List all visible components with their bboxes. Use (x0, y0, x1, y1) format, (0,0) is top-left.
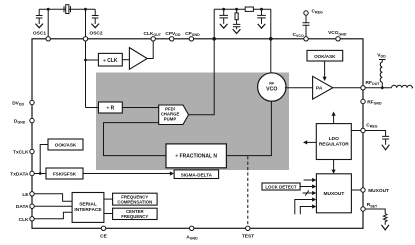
svg-text:LE: LE (22, 192, 29, 198)
svg-text:SERIAL: SERIAL (79, 202, 97, 208)
ground (CREG cap) (382, 145, 390, 150)
gray PLL region (96, 73, 289, 171)
wire: muxout block to pin (351, 189, 360, 191)
pin CLKOUT (151, 37, 155, 41)
pin CREG (top, regulator bypass) (304, 11, 308, 15)
wire: LDO left arrow (307, 141, 317, 143)
wire: LDO up arrow (333, 115, 335, 124)
wire: crystal top rail (39, 8, 95, 10)
capacitor C1 (loop filter) (219, 9, 228, 24)
svg-text:VCOGND: VCOGND (328, 30, 347, 36)
wire: loop filter top (214, 8, 271, 10)
svg-text:FREQUENCY: FREQUENCY (121, 214, 148, 219)
svg-text:CPGND: CPGND (185, 31, 200, 37)
wire: VCO to PA (285, 87, 313, 89)
svg-text:LDO: LDO (329, 136, 339, 142)
svg-text:OSC1: OSC1 (33, 31, 46, 37)
pin LE (30, 192, 34, 196)
block CENTER FREQUENCY (113, 208, 158, 219)
svg-text:CLKOUT: CLKOUT (144, 31, 162, 37)
pin CPGND (189, 37, 193, 41)
wire: RSET to resistor (365, 209, 385, 214)
svg-text:RSET: RSET (367, 202, 378, 208)
wire: LDO to CREG pin (351, 130, 361, 132)
wire: OSC2 down to dividers (85, 41, 87, 108)
node: CP rail junction (212, 37, 216, 41)
node: TxDATA junction (39, 172, 42, 175)
svg-text:TxCLK: TxCLK (13, 150, 29, 156)
svg-text:COMPENSATION: COMPENSATION (117, 199, 152, 204)
svg-text:OOK/ASK: OOK/ASK (314, 54, 336, 59)
wire: OSC1 drop (47, 9, 49, 36)
svg-text:CE: CE (100, 234, 107, 240)
capacitor C-reg-top (303, 15, 310, 36)
modulator FSK/GFSK (46, 168, 83, 179)
svg-text:SIGMA-DELTA: SIGMA-DELTA (181, 172, 213, 177)
chip outline (32, 39, 363, 229)
modulator OOK/ASK (left) (48, 139, 83, 150)
wire: lock detect to muxout (arrow) (300, 186, 313, 188)
svg-text:VDD: VDD (377, 52, 386, 58)
pin MUXOUT (361, 188, 365, 192)
node: choke tap (381, 86, 384, 89)
inductor L-ant (series squiggle) (392, 85, 414, 88)
svg-text:CPVDD: CPVDD (165, 31, 180, 37)
pin TEST (246, 226, 250, 230)
wire: PA to RFOUT (333, 87, 361, 89)
wire: CREG to bypass cap (365, 131, 385, 137)
svg-text:RFGND: RFGND (367, 100, 382, 106)
wire: ÷R to PFD (122, 107, 158, 109)
ground (osc1 cap) (35, 24, 43, 28)
wire: DATA to serial interface (34, 205, 72, 207)
pin DVDD (30, 100, 34, 104)
block MUXOUT (316, 174, 351, 213)
wire: LE to serial interface (34, 194, 72, 201)
crystal X1 (64, 5, 71, 14)
regulator LDO (316, 124, 351, 160)
capacitor C2 (loop filter) (233, 24, 240, 29)
wire: SI to frequency compensation (104, 198, 113, 200)
pin DATA (30, 204, 34, 208)
divider ÷CLK (98, 53, 122, 66)
svg-text:AGND: AGND (186, 235, 198, 241)
wire: CLK to serial interface (34, 212, 72, 219)
svg-text:DATA: DATA (16, 204, 29, 210)
wire: OSC2 drop (85, 9, 87, 36)
svg-text:TEST: TEST (242, 234, 254, 240)
pin TxDATA (30, 171, 34, 175)
wire: LDO to MUXOUT block (arrow) (333, 160, 335, 171)
resistor R-set (383, 214, 387, 225)
detector LOCK DETECT (262, 183, 300, 190)
PFD / charge pump U-pfd (159, 105, 189, 125)
wire: OOK/ASK to PA (arrow) (324, 61, 326, 78)
wire: TxDATA line (34, 173, 46, 175)
pin CLK (30, 217, 34, 221)
node: clk tap (84, 59, 87, 62)
wire: muxout input 5 (arrow) (300, 207, 313, 215)
pin CPVDD (170, 37, 174, 41)
wire: ÷CLK to buffer (122, 59, 129, 61)
wire: charge pump output to loop filter (189, 39, 215, 115)
resistor R2 (loop filter series) (245, 7, 253, 11)
inductor L-choke (to VDD) (379, 60, 386, 88)
svg-text:TxDATA: TxDATA (10, 172, 29, 178)
node: VCO rail junction (269, 37, 273, 41)
pin OSC2 (83, 37, 87, 41)
svg-text:VCO: VCO (266, 87, 277, 93)
pin CVCO (304, 37, 308, 41)
svg-text:INTERFACE: INTERFACE (74, 207, 102, 213)
svg-text:LOCK DETECT: LOCK DETECT (265, 184, 297, 189)
modulator OOK/ASK (right) (307, 50, 343, 61)
pin AGND (190, 226, 194, 230)
wire: SI to center frequency (104, 213, 113, 215)
block SERIAL INTERFACE (72, 193, 104, 223)
pin TxCLK (30, 149, 34, 153)
wire: muxout input 4 (arrow) (295, 200, 313, 215)
capacitor C-osc2 (92, 9, 99, 24)
node: C1 tap (222, 8, 225, 11)
wire: FSK/GFSK to sigma-delta (arrow) (83, 173, 171, 175)
pin CREG (right) (361, 128, 365, 132)
svg-text:RF: RF (269, 82, 275, 86)
resistor R1 (loop filter) (235, 13, 238, 20)
wire: muxout input 3 with bus slash (arrow) (303, 192, 313, 194)
svg-text:MUXOUT: MUXOUT (324, 191, 345, 197)
svg-text:CVCO: CVCO (293, 32, 304, 38)
capacitor C-osc1 (36, 9, 43, 24)
svg-text:PUMP: PUMP (164, 117, 177, 122)
wire: N divider to PFD feedback (104, 123, 167, 156)
svg-text:÷ CLK: ÷ CLK (103, 58, 118, 64)
wire: VCO tune input (270, 39, 272, 74)
node: crystal-left junction (47, 8, 50, 11)
svg-text:FSK/GFSK: FSK/GFSK (53, 172, 77, 177)
svg-text:REGULATOR: REGULATOR (319, 142, 349, 148)
ground (C2) (233, 29, 241, 33)
oscillator RF VCO (258, 73, 286, 101)
svg-text:PA: PA (316, 86, 323, 92)
capacitor C3 (loop filter) (257, 9, 266, 24)
node: R1C2 tap (235, 8, 238, 11)
loop filter: CP column (213, 9, 215, 39)
ground (C1) (220, 24, 228, 28)
modulator SIGMA-DELTA (174, 170, 219, 179)
pin CE (101, 226, 105, 230)
svg-text:RFOUT: RFOUT (366, 80, 381, 86)
node: C3 tap (260, 8, 263, 11)
svg-text:÷ FRACTIONAL N: ÷ FRACTIONAL N (175, 154, 217, 160)
ground (osc2 cap) (91, 24, 99, 28)
svg-text:OSC2: OSC2 (90, 31, 103, 37)
pin OSC1 (46, 37, 50, 41)
wire: buffer to CLKOUT pin (147, 41, 153, 59)
svg-text:CLK: CLK (19, 217, 29, 223)
ground (RSET) (381, 225, 389, 230)
svg-text:÷ R: ÷ R (107, 106, 115, 112)
svg-text:OOK/ASK: OOK/ASK (55, 143, 77, 148)
pin RFGND (361, 99, 365, 103)
divider ÷ FRACTIONAL N (166, 144, 226, 168)
capacitor C-reg-right (382, 136, 389, 144)
pin DGND (30, 118, 34, 122)
node: crystal-right junction (84, 8, 87, 11)
svg-text:CREG: CREG (366, 122, 377, 128)
block FREQUENCY COMPENSATION (113, 193, 158, 205)
loop filter: VCO column (270, 9, 272, 39)
svg-text:DGND: DGND (14, 118, 26, 124)
wire: to divide-by-CLK (86, 59, 99, 61)
pin RFOUT (361, 86, 365, 90)
ground (C3) (258, 24, 266, 28)
wire: muxout input 1 (arrow) (304, 179, 313, 181)
wire: VCO to N divider (226, 101, 271, 156)
divider ÷R (86, 107, 99, 109)
wire: TEST dashed (247, 156, 249, 226)
svg-text:CREG: CREG (312, 9, 323, 15)
buffer U-clk (129, 48, 147, 70)
wire: to OOK/ASK (left) (40, 145, 48, 174)
pin VCOGND (336, 37, 340, 41)
wire: RFOUT external (365, 87, 391, 89)
svg-text:DVDD: DVDD (12, 100, 24, 106)
amplifier PA (313, 76, 333, 99)
svg-text:MUXOUT: MUXOUT (368, 188, 389, 194)
pin RSET (361, 207, 365, 211)
